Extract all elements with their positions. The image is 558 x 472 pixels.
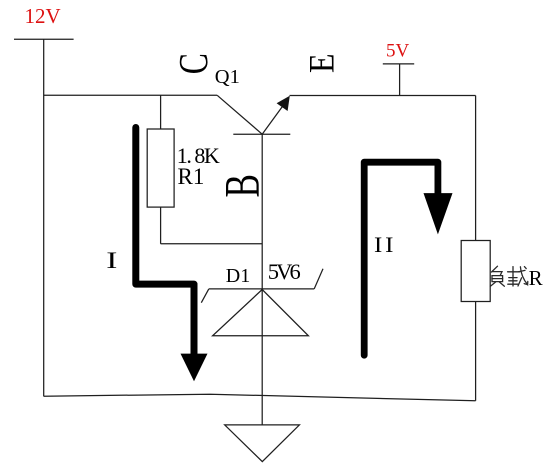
svg-text:E: E <box>303 53 342 73</box>
svg-text:C: C <box>170 53 216 74</box>
svg-text:Q1: Q1 <box>215 66 240 88</box>
svg-text:5V6: 5V6 <box>268 259 301 284</box>
svg-text:D1: D1 <box>226 265 250 287</box>
svg-text:B: B <box>216 174 270 198</box>
svg-text:R1: R1 <box>178 164 205 189</box>
svg-text:R: R <box>529 266 543 290</box>
svg-text:5V: 5V <box>386 40 410 61</box>
svg-text:I: I <box>106 248 117 274</box>
svg-text:12V: 12V <box>25 4 61 28</box>
svg-text:II: II <box>374 233 396 257</box>
